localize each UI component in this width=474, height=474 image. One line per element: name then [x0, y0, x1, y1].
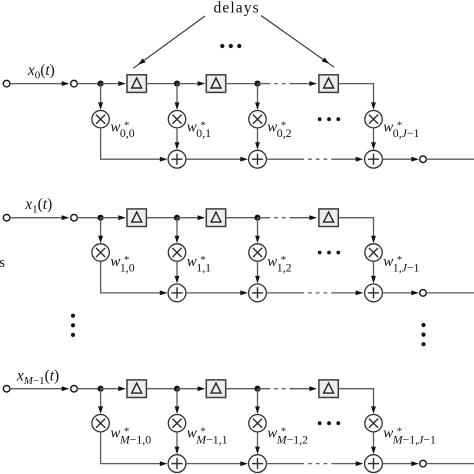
- svg-text:x1(t): x1(t): [24, 196, 52, 216]
- wire adder 3 to output terminal row 2: [382, 461, 419, 466]
- wire delay2 to node row 0 tap 2: [226, 83, 258, 85]
- weight label w*_1,1: [187, 254, 211, 274]
- wire delay2 to node row 2 tap 2: [226, 388, 258, 390]
- terminal after input arrow row 1: [71, 214, 78, 221]
- adder S1,1: [168, 284, 186, 302]
- dashed wire into last delay row 0: [258, 81, 318, 86]
- delay element Δ 0,2: [206, 75, 225, 93]
- wire multiplier to adder row 0: [371, 128, 376, 150]
- weight label w*_0,J−1: [383, 120, 419, 140]
- adder S2,1: [168, 455, 186, 473]
- output terminal row 0: [420, 156, 427, 163]
- wire output to edge row 1: [426, 292, 474, 294]
- svg-text:M−1,J−1: M−1,J−1: [392, 432, 436, 446]
- wire multiplier to adder row 1: [255, 261, 260, 283]
- weight label w*_1,0: [110, 254, 134, 274]
- multiplier W1,0: [92, 244, 109, 261]
- multiplier W2,J−1: [365, 415, 382, 432]
- multiplier W0,1: [168, 111, 185, 128]
- delay element Δ 2,J−1: [319, 380, 338, 398]
- wire input row 2: [10, 386, 70, 391]
- wire node tap 2 to multiplier row 2: [255, 389, 260, 414]
- svg-text:M−1,1: M−1,1: [195, 432, 227, 446]
- svg-text:1,1: 1,1: [196, 260, 211, 274]
- wire multiplier to adder row 2: [175, 432, 180, 454]
- weight label w*_0,0: [110, 120, 134, 140]
- wire multiplier to adder row 2: [255, 432, 260, 454]
- dashed wire adder 2 to adder 3 row 2: [266, 461, 363, 466]
- input terminal row 2: [3, 385, 10, 392]
- multiplier W1,2: [249, 244, 266, 261]
- wire multiplier to adder row 0: [255, 128, 260, 150]
- wire input row 0: [10, 81, 70, 86]
- wire last delay to multiplier 2,J-1: [338, 388, 376, 414]
- adder S1,2: [249, 284, 267, 302]
- adder S0,2: [249, 150, 267, 168]
- ellipsis between multipliers row 0: [318, 117, 340, 121]
- adder S2,2: [249, 455, 267, 473]
- wire node tap 1 to multiplier row 1: [175, 218, 180, 244]
- node row 2 tap 2: [254, 386, 260, 392]
- wire into delay 1 row 2: [101, 386, 126, 391]
- svg-text:M−1,2: M−1,2: [276, 432, 308, 446]
- adder S1,3: [365, 284, 383, 302]
- terminal after input arrow row 2: [71, 385, 78, 392]
- output terminal row 2: [420, 460, 427, 467]
- wire input row 1: [10, 215, 70, 220]
- wire adder 1 to adder 2 row 2: [186, 461, 248, 466]
- svg-text:delays: delays: [214, 0, 260, 16]
- wire multiplier to adder row 1: [371, 261, 376, 283]
- weight label w*_M−1,0: [110, 425, 151, 446]
- wire node tap 2 to multiplier row 1: [255, 218, 260, 244]
- svg-text:0,2: 0,2: [277, 126, 292, 140]
- weight label w*_M−1,1: [187, 425, 228, 446]
- wire delay1 to node row 2 tap 1: [146, 388, 177, 390]
- dashed wire into last delay row 1: [258, 215, 318, 220]
- ellipsis between multipliers row 1: [318, 251, 340, 255]
- multiplier W1,1: [168, 244, 185, 261]
- wire multiplier 1,0 to adder 1,1: [100, 261, 167, 295]
- wire node tap 1 to multiplier row 2: [175, 389, 180, 414]
- vertical ellipsis right: [421, 323, 425, 346]
- delay element Δ 2,1: [127, 380, 146, 398]
- input signal label x_1(t): [24, 196, 52, 216]
- svg-text:1,2: 1,2: [277, 260, 292, 274]
- cropped caption letter s at left edge: [0, 255, 5, 271]
- svg-text:1,0: 1,0: [120, 260, 135, 274]
- wire adder 3 to output terminal row 1: [382, 290, 419, 295]
- multiplier W0,J−1: [365, 111, 382, 128]
- wire output to edge row 0: [426, 158, 474, 160]
- node row 0 tap 0: [98, 81, 104, 87]
- wire adder 1 to adder 2 row 0: [186, 157, 248, 162]
- wire into delay 2 row 2: [177, 386, 205, 391]
- svg-text:0,1: 0,1: [196, 126, 211, 140]
- wire multiplier to adder row 1: [175, 261, 180, 283]
- input signal label x_0(t): [27, 62, 55, 82]
- weight label w*_0,2: [267, 120, 291, 140]
- delay element Δ 2,2: [206, 380, 225, 398]
- wire to node row 0 tap 0: [77, 83, 100, 85]
- delay element Δ 1,2: [206, 209, 225, 227]
- node row 2 tap 1: [174, 386, 180, 392]
- weight label w*_M−1,2: [267, 425, 308, 446]
- input terminal row 0: [3, 80, 10, 87]
- wire adder 3 to output terminal row 0: [382, 157, 419, 162]
- annotation arrow to first delay element: [133, 16, 205, 68]
- wire into delay 1 row 1: [101, 215, 126, 220]
- wire last delay to multiplier 1,J-1: [338, 217, 376, 243]
- wire node tap 2 to multiplier row 0: [255, 84, 260, 110]
- multiplier W2,0: [92, 415, 109, 432]
- wire multiplier to adder row 0: [175, 128, 180, 150]
- wire to node row 2 tap 0: [77, 388, 100, 390]
- input signal label x_M−1(t): [16, 367, 59, 387]
- node row 1 tap 0: [98, 215, 104, 221]
- wire last delay to multiplier 0,J-1: [338, 83, 376, 110]
- wire node tap 0 to multiplier row 1: [98, 218, 103, 244]
- multiplier W1,J−1: [365, 244, 382, 261]
- wire node tap 1 to multiplier row 0: [175, 84, 180, 110]
- vertical ellipsis left: [71, 314, 75, 337]
- multiplier W0,0: [92, 111, 109, 128]
- wire into delay 2 row 0: [177, 81, 205, 86]
- ellipsis between multipliers row 2: [318, 421, 340, 425]
- adder S0,3: [365, 150, 383, 168]
- wire to node row 1 tap 0: [77, 217, 100, 219]
- svg-text:M−1,0: M−1,0: [119, 432, 151, 446]
- svg-text:0,0: 0,0: [120, 126, 135, 140]
- multiplier W2,1: [168, 415, 185, 432]
- wire multiplier 2,0 to adder 2,1: [100, 432, 167, 466]
- wire delay1 to node row 1 tap 1: [146, 217, 177, 219]
- dashed wire adder 2 to adder 3 row 1: [266, 290, 363, 295]
- delay element Δ 0,J−1: [319, 75, 338, 93]
- adder S2,3: [365, 455, 383, 473]
- svg-text:1,J−1: 1,J−1: [393, 260, 420, 274]
- weight label w*_M−1,J−1: [383, 425, 436, 446]
- wire multiplier 0,0 to adder 0,1: [100, 128, 167, 162]
- wire into delay 1 row 0: [101, 81, 126, 86]
- input terminal row 1: [3, 214, 10, 221]
- weight label w*_1,J−1: [383, 254, 419, 274]
- wire delay2 to node row 1 tap 2: [226, 217, 258, 219]
- wire adder 1 to adder 2 row 1: [186, 290, 248, 295]
- annotation arrow to last delay element: [261, 16, 334, 68]
- node row 1 tap 1: [174, 215, 180, 221]
- svg-text:s: s: [0, 255, 5, 271]
- weight label w*_0,1: [187, 120, 211, 140]
- wire node tap 0 to multiplier row 2: [98, 389, 103, 414]
- adder S0,1: [168, 150, 186, 168]
- wire into delay 2 row 1: [177, 215, 205, 220]
- output terminal row 1: [420, 290, 427, 297]
- multiplier W2,2: [249, 415, 266, 432]
- multiplier W0,2: [249, 111, 266, 128]
- weight label w*_1,2: [267, 254, 291, 274]
- dashed wire adder 2 to adder 3 row 0: [266, 157, 363, 162]
- svg-text:x0(t): x0(t): [27, 62, 55, 82]
- dashed wire into last delay row 2: [258, 386, 318, 391]
- delay element Δ 1,1: [127, 209, 146, 227]
- ellipsis between delay elements (top): [220, 44, 241, 48]
- delay element Δ 0,1: [127, 75, 146, 93]
- wire node tap 0 to multiplier row 0: [98, 84, 103, 110]
- label "delays": [214, 0, 260, 16]
- svg-text:0,J−1: 0,J−1: [393, 126, 420, 140]
- node row 2 tap 0: [98, 386, 104, 392]
- wire output to edge row 2: [426, 463, 474, 465]
- wire multiplier to adder row 2: [371, 432, 376, 454]
- node row 1 tap 2: [254, 215, 260, 221]
- node row 0 tap 2: [254, 81, 260, 87]
- wire delay1 to node row 0 tap 1: [146, 83, 177, 85]
- node row 0 tap 1: [174, 81, 180, 87]
- delay element Δ 1,J−1: [319, 209, 338, 227]
- terminal after input arrow row 0: [71, 80, 78, 87]
